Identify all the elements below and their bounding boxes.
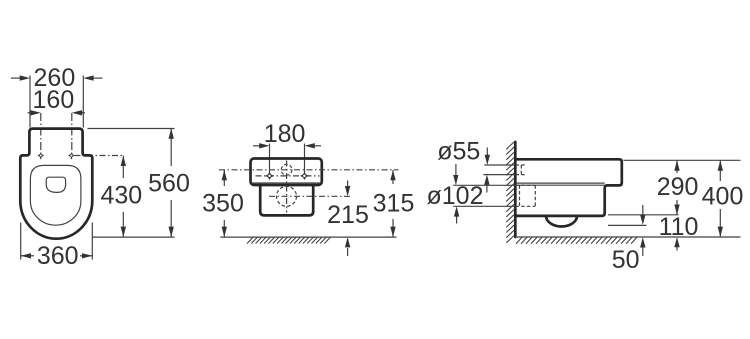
right fixing hole marker — [300, 172, 309, 180]
arrow 160 left — [28, 112, 34, 114]
extension line left of 260 — [29, 76, 31, 128]
dia55 arrow up — [486, 184, 488, 193]
dim line 430 — [122, 156, 124, 178]
svg-text:50: 50 — [612, 246, 640, 274]
left fixing hole — [40, 156, 42, 160]
dim line 560 — [170, 129, 172, 167]
narrow body outline — [260, 185, 313, 215]
extension line left of 360 — [20, 223, 22, 260]
215 top arrow — [347, 181, 349, 189]
extension line bottom for 430/560 — [93, 236, 175, 238]
supply pipe leader top — [484, 164, 515, 166]
svg-text:ø102: ø102 — [427, 182, 484, 210]
supply circle — [281, 164, 292, 175]
drain pipe dashed — [534, 185, 536, 206]
centre line to right fixing hole — [71, 113, 73, 156]
dim line 290 — [676, 160, 678, 173]
top reference line — [624, 159, 741, 161]
horizontal centre line through drain — [269, 195, 352, 197]
dim line 360 with outward arrows — [21, 255, 34, 257]
dia55 arrow down — [486, 148, 488, 158]
110 bottom arrow — [676, 246, 678, 251]
extension line right of 260 — [82, 76, 84, 128]
left fixing hole marker — [265, 172, 274, 180]
centre line to right hole — [304, 144, 306, 180]
drain pipe leader top — [453, 184, 515, 186]
vertical centre line — [286, 161, 288, 213]
50 arrow down — [642, 205, 644, 217]
svg-text:110: 110 — [659, 213, 699, 241]
shelf line — [252, 182, 320, 184]
svg-text:ø55: ø55 — [437, 138, 480, 166]
seat inner ring — [30, 165, 81, 225]
dim line 350 — [223, 170, 225, 186]
WC outline with cistern (top view) — [20, 129, 92, 239]
wall line — [514, 142, 517, 237]
wall hatch — [506, 142, 514, 243]
supply pipe leader bottom — [483, 174, 515, 176]
supply pipe dashed — [520, 165, 522, 175]
ground hatch — [247, 237, 330, 243]
floor hatch — [516, 237, 637, 244]
horizontal centre line through holes — [256, 175, 320, 177]
horizontal centre line through supply — [219, 169, 399, 171]
extension line right of 360 — [91, 223, 93, 260]
svg-text:350: 350 — [202, 190, 244, 218]
seat lines — [516, 182, 604, 184]
arrow 260 right — [92, 77, 103, 79]
centre line to left fixing hole — [40, 113, 42, 156]
ref line at body bottom for 290/110 — [608, 214, 679, 216]
drain circle — [277, 186, 297, 206]
svg-text:160: 160 — [33, 86, 75, 114]
floor line — [515, 236, 741, 238]
svg-text:360: 360 — [37, 242, 79, 270]
arrow 180 right — [313, 145, 322, 147]
right fixing hole — [71, 156, 73, 160]
svg-text:400: 400 — [702, 183, 744, 211]
svg-text:430: 430 — [100, 182, 142, 210]
dia102 arrow down — [455, 164, 457, 177]
svg-text:315: 315 — [373, 190, 415, 218]
body side outline — [516, 159, 621, 216]
arrow 160 right — [80, 112, 86, 114]
svg-text:290: 290 — [657, 173, 699, 201]
dim line 315 — [392, 170, 394, 184]
arrow 180 left — [253, 145, 262, 147]
wide body outline — [251, 159, 322, 186]
ground line — [220, 236, 396, 238]
ref line at bump bottom for 50 — [608, 224, 647, 226]
215 bottom arrow — [347, 248, 349, 256]
50 arrow up — [642, 246, 644, 256]
centre line to left hole — [269, 144, 271, 180]
flush cup — [46, 177, 65, 192]
centre line horizontal to 430 dim — [75, 155, 124, 157]
dim line 400 — [719, 160, 721, 181]
svg-text:215: 215 — [327, 201, 369, 229]
dia102 arrow up — [456, 215, 458, 224]
arrow 260 left — [11, 77, 22, 79]
svg-text:560: 560 — [148, 170, 190, 198]
drain bump — [546, 216, 577, 227]
drain pipe leader bottom — [453, 205, 515, 207]
extension line top for 560 — [88, 128, 175, 130]
